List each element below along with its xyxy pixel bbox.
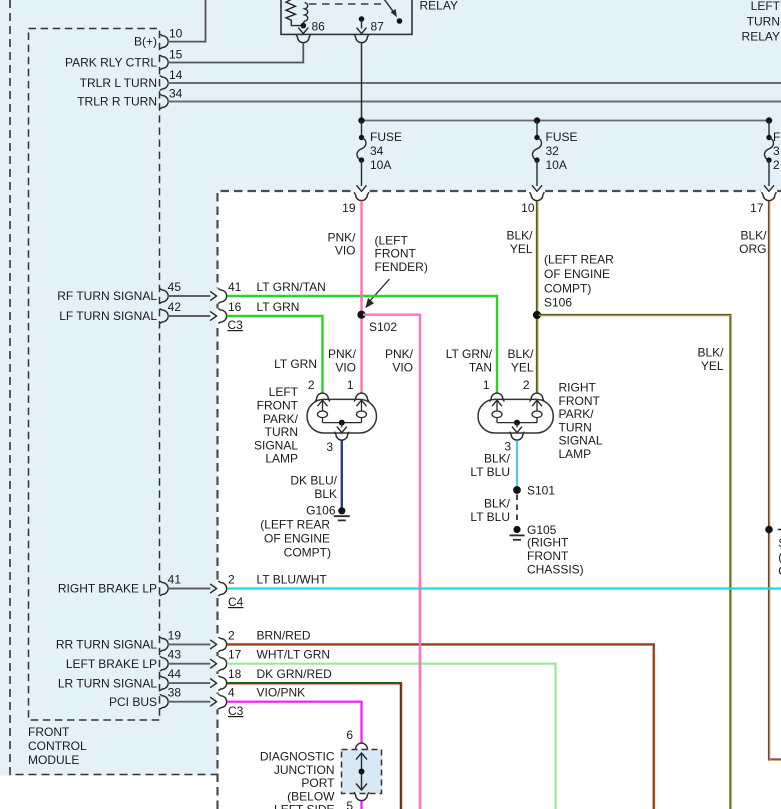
svg-text:FRONT: FRONT — [375, 247, 417, 261]
svg-text:15: 15 — [169, 47, 183, 61]
ground G105 symbol — [513, 526, 520, 533]
svg-text:2: 2 — [773, 158, 780, 172]
wire relay pin 87 down — [361, 43, 363, 121]
svg-text:44: 44 — [168, 667, 182, 681]
fuse 34 column wire upper — [361, 121, 363, 138]
left lamp pin 3 connector cup — [335, 432, 350, 441]
svg-text:B(+): B(+) — [134, 35, 157, 49]
FCM pin 15 connector cup — [160, 55, 169, 70]
wire BLK/YEL from fuse 32 to right lamp pin 2 — [536, 201, 538, 393]
svg-text:(LEFT REAR: (LEFT REAR — [260, 518, 330, 532]
fuse right wire to harness box — [768, 160, 770, 186]
main harness dashed box — [218, 191, 781, 809]
svg-text:10A: 10A — [546, 158, 567, 172]
svg-text:PCI BUS: PCI BUS — [109, 695, 157, 709]
svg-text:FRONT: FRONT — [559, 394, 601, 408]
bus junction node at fuse 34 — [358, 117, 364, 123]
left lamp pin 1 connector cup — [354, 393, 369, 402]
svg-text:COMPT): COMPT) — [544, 282, 591, 296]
relay internal dashed link — [309, 3, 381, 5]
svg-text:LF TURN SIGNAL: LF TURN SIGNAL — [59, 309, 157, 323]
svg-text:4: 4 — [228, 686, 235, 700]
svg-text:2: 2 — [228, 573, 235, 587]
ground G106 symbol — [338, 507, 345, 514]
svg-text:BLK: BLK — [314, 487, 337, 501]
svg-text:S106: S106 — [544, 296, 572, 310]
relay coil resistor element — [286, 0, 301, 26]
svg-text:BLK/: BLK/ — [507, 347, 534, 361]
fuse 34 element — [359, 135, 364, 140]
wire WHT/LT GRN — [227, 664, 556, 809]
diagnostic junction port box — [342, 750, 382, 794]
svg-text:6: 6 — [346, 728, 353, 742]
svg-text:DK GRN/RED: DK GRN/RED — [257, 667, 333, 681]
svg-text:YEL: YEL — [511, 360, 534, 374]
svg-text:OF ENGINE: OF ENGINE — [264, 532, 330, 546]
svg-text:32: 32 — [546, 144, 560, 158]
relay pin 86 connector cup — [296, 34, 311, 43]
svg-text:LAMP: LAMP — [559, 447, 592, 461]
svg-text:TAN: TAN — [469, 360, 492, 374]
svg-text:1: 1 — [347, 378, 354, 392]
splice node right edge — [765, 526, 773, 534]
right lamp internal filaments — [492, 400, 502, 406]
svg-text:3: 3 — [326, 440, 333, 454]
svg-text:RIGHT: RIGHT — [559, 381, 597, 395]
svg-text:FRONT: FRONT — [527, 549, 569, 563]
svg-text:JUNCTION: JUNCTION — [274, 763, 335, 777]
right lamp pin 3 connector cup — [510, 432, 525, 441]
DJP pin 6 connector cup — [354, 743, 369, 752]
svg-text:WHT/LT GRN: WHT/LT GRN — [257, 648, 331, 662]
relay pin 86 node — [301, 23, 307, 29]
DJP pin 5 connector cup — [354, 792, 369, 801]
svg-text:10: 10 — [169, 27, 183, 41]
svg-text:PARK RLY CTRL: PARK RLY CTRL — [65, 56, 157, 70]
wire B(+) to relay feed — [168, 0, 206, 42]
svg-text:LT GRN: LT GRN — [274, 357, 317, 371]
splice S101 node — [513, 486, 521, 494]
fuse 34 wire to harness box — [361, 160, 363, 186]
svg-text:LT GRN: LT GRN — [257, 300, 300, 314]
svg-text:PNK/: PNK/ — [327, 230, 356, 244]
splice S106 node — [533, 311, 541, 319]
svg-text:LEFT: LEFT — [269, 385, 299, 399]
wire BLK/LT BLU dashed segment to ground — [516, 495, 518, 524]
svg-text:MODULE: MODULE — [28, 753, 79, 767]
wire park relay control to relay pin 86 — [168, 43, 304, 63]
svg-text:SIGNAL: SIGNAL — [254, 438, 298, 452]
fuse right element — [766, 135, 771, 140]
svg-text:LT BLU: LT BLU — [470, 510, 510, 524]
wire PNK/VIO branch overdraw at crossings — [419, 580, 421, 809]
svg-text:38: 38 — [168, 686, 182, 700]
left lamp internal filaments — [318, 400, 328, 406]
relay pin 87 node — [359, 16, 365, 22]
svg-text:DK BLU/: DK BLU/ — [290, 474, 337, 488]
svg-text:(BELOW: (BELOW — [287, 789, 335, 803]
svg-text:VIO/PNK: VIO/PNK — [257, 686, 306, 700]
feed bus wire — [362, 120, 770, 122]
svg-text:18: 18 — [228, 667, 242, 681]
relay K1 box — [281, 0, 412, 34]
svg-text:RR TURN SIGNAL: RR TURN SIGNAL — [56, 638, 157, 652]
svg-text:VIO: VIO — [335, 360, 356, 374]
svg-text:CHASSIS): CHASSIS) — [527, 562, 584, 576]
splice S102 node — [357, 311, 365, 319]
svg-text:(LEFT REAR: (LEFT REAR — [544, 253, 614, 267]
FCM pin 10 connector cup — [160, 34, 169, 49]
front control module outer dashed box — [10, 0, 218, 775]
wire DK GRN/RED — [227, 683, 401, 809]
wire trailer right turn — [168, 101, 781, 103]
svg-text:86: 86 — [312, 20, 326, 34]
right front park/turn signal lamp body — [478, 399, 553, 433]
fuse right column wire upper — [768, 121, 770, 138]
svg-text:RF TURN SIGNAL: RF TURN SIGNAL — [57, 289, 157, 303]
relay coil winding element — [303, 3, 307, 25]
wire BLK/YEL branch to x730 — [539, 315, 731, 809]
wire BLK/LT BLU to S101 — [516, 441, 518, 487]
svg-text:1: 1 — [483, 378, 490, 392]
fuse 32 column wire upper — [536, 121, 538, 138]
svg-text:45: 45 — [168, 280, 182, 294]
svg-text:TRLR L TURN: TRLR L TURN — [80, 76, 157, 90]
wire BLK/ORG lower to right edge — [769, 533, 781, 760]
svg-text:PNK/: PNK/ — [328, 347, 357, 361]
svg-text:LEFT: LEFT — [751, 0, 781, 13]
svg-text:TURN: TURN — [747, 15, 780, 29]
svg-text:17: 17 — [750, 201, 764, 215]
svg-text:BLK/: BLK/ — [484, 497, 511, 511]
svg-text:PARK/: PARK/ — [263, 412, 299, 426]
svg-text:FENDER): FENDER) — [375, 260, 428, 274]
svg-text:RIGHT BRAKE LP: RIGHT BRAKE LP — [58, 582, 157, 596]
svg-text:YEL: YEL — [510, 242, 533, 256]
bus junction node at right fuse — [766, 117, 772, 123]
wire VIO/PNK below DJP — [360, 801, 362, 809]
svg-text:BLK/: BLK/ — [506, 229, 533, 243]
svg-text:TRLR R TURN: TRLR R TURN — [77, 95, 157, 109]
fuse 32 wire to harness box — [536, 160, 538, 186]
svg-text:(LEFT: (LEFT — [375, 233, 409, 247]
svg-text:PARK/: PARK/ — [559, 407, 595, 421]
FCM pin 34 connector cup — [160, 94, 169, 109]
svg-text:FUSE: FUSE — [370, 130, 402, 144]
svg-text:LEFT BRAKE LP: LEFT BRAKE LP — [66, 657, 157, 671]
svg-text:TURN: TURN — [265, 425, 298, 439]
svg-text:10A: 10A — [370, 158, 391, 172]
wire VIO/PNK to diagnostic junction port — [227, 702, 362, 743]
svg-text:LAMP: LAMP — [265, 452, 298, 466]
svg-text:DIAGNOSTIC: DIAGNOSTIC — [260, 750, 335, 764]
wire LT GRN/TAN to right lamp pin 1 — [227, 296, 497, 393]
svg-text:BRN/RED: BRN/RED — [257, 628, 311, 642]
svg-text:5: 5 — [346, 799, 353, 809]
svg-text:S102: S102 — [369, 320, 397, 334]
front control module inner dashed box — [29, 29, 160, 721]
svg-text:2: 2 — [228, 628, 235, 642]
svg-text:LT GRN/: LT GRN/ — [446, 347, 493, 361]
left lamp pin 2 connector cup — [315, 393, 330, 402]
svg-text:PORT: PORT — [301, 776, 335, 790]
svg-text:FRONT: FRONT — [28, 725, 70, 739]
wire BLK/ORG from right fuse — [768, 201, 770, 527]
svg-text:TURN: TURN — [559, 420, 592, 434]
svg-text:BLK/: BLK/ — [740, 229, 767, 243]
wire BRN/RED — [227, 644, 654, 809]
svg-text:ORG: ORG — [739, 242, 766, 256]
DJP internal bus — [361, 753, 363, 790]
svg-text:FUSE: FUSE — [546, 130, 578, 144]
svg-text:LT GRN/TAN: LT GRN/TAN — [257, 280, 326, 294]
wire LT BLU/WHT — [227, 587, 781, 589]
wire DK BLU/BLK to ground — [341, 441, 343, 508]
svg-text:CONTROL: CONTROL — [28, 739, 87, 753]
relay switch contact dot — [397, 18, 403, 24]
svg-text:C3: C3 — [228, 318, 244, 332]
wire LT GRN to left lamp pin 2 — [227, 316, 323, 393]
wire trailer left turn — [168, 82, 781, 84]
fuse 32 element — [534, 135, 539, 140]
svg-text:LT BLU: LT BLU — [470, 465, 510, 479]
svg-text:17: 17 — [228, 648, 242, 662]
right lamp pin 1 connector cup — [490, 393, 505, 402]
relay pin 87 connector cup — [354, 34, 369, 43]
svg-text:41: 41 — [168, 573, 182, 587]
connector cup pin 10 — [530, 192, 545, 201]
white interior of main harness box — [218, 191, 781, 809]
left front park/turn signal lamp body — [307, 399, 377, 433]
svg-text:YEL: YEL — [701, 359, 724, 373]
svg-text:BLK/: BLK/ — [697, 346, 724, 360]
svg-text:43: 43 — [168, 648, 182, 662]
FCM pin 14 connector cup — [160, 76, 169, 91]
svg-text:PNK/: PNK/ — [385, 347, 414, 361]
svg-text:19: 19 — [168, 628, 182, 642]
svg-text:14: 14 — [169, 68, 183, 82]
svg-text:42: 42 — [168, 300, 182, 314]
svg-text:VIO: VIO — [335, 244, 356, 258]
right lamp pin 2 connector cup — [530, 393, 545, 402]
svg-text:VIO: VIO — [392, 360, 413, 374]
svg-text:16: 16 — [228, 300, 242, 314]
svg-text:RELAY: RELAY — [742, 30, 780, 44]
svg-text:LR TURN SIGNAL: LR TURN SIGNAL — [58, 676, 157, 690]
connector cup pin 17 — [762, 192, 777, 201]
svg-text:2: 2 — [523, 378, 530, 392]
svg-text:19: 19 — [342, 201, 356, 215]
svg-text:(RIGHT: (RIGHT — [527, 536, 569, 550]
svg-text:FRONT: FRONT — [257, 399, 299, 413]
svg-text:SIGNAL: SIGNAL — [559, 434, 603, 448]
svg-text:OF ENGINE: OF ENGINE — [544, 267, 610, 281]
wire PNK/VIO branch to x420 — [363, 315, 420, 809]
svg-text:87: 87 — [371, 20, 385, 34]
bus junction node at fuse 32 — [534, 117, 540, 123]
connector cup pin 19 — [354, 192, 369, 201]
svg-text:FUSE: FUSE — [773, 130, 781, 144]
svg-text:C4: C4 — [228, 595, 244, 609]
svg-text:10: 10 — [521, 201, 535, 215]
svg-text:LEFT SIDE: LEFT SIDE — [274, 803, 334, 809]
svg-text:3: 3 — [773, 144, 780, 158]
note arrow to S102 — [371, 279, 390, 300]
svg-text:41: 41 — [228, 280, 242, 294]
svg-text:34: 34 — [370, 144, 384, 158]
relay switch arm — [383, 0, 395, 13]
svg-text:BLK/: BLK/ — [484, 452, 511, 466]
svg-text:G106: G106 — [306, 504, 336, 518]
svg-text:COMPT): COMPT) — [284, 546, 331, 560]
white strip below front control module outer box — [0, 776, 217, 809]
wire PNK/VIO overdraw at green crossing — [360, 291, 362, 302]
svg-text:LT BLU/WHT: LT BLU/WHT — [257, 573, 328, 587]
svg-text:C3: C3 — [228, 704, 244, 718]
svg-text:RELAY: RELAY — [420, 0, 458, 13]
svg-text:S101: S101 — [527, 484, 555, 498]
wire PNK/VIO from fuse 34 — [360, 201, 362, 393]
svg-text:34: 34 — [169, 86, 183, 100]
svg-text:2: 2 — [308, 378, 315, 392]
